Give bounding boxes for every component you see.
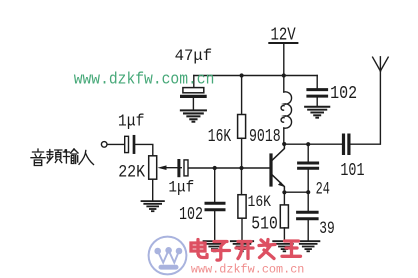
wire input circle to C3 xyxy=(107,143,125,145)
svg-text:www.dzkfw.com.cn: www.dzkfw.com.cn xyxy=(191,262,305,276)
watermark red text 电子开发王 xyxy=(191,240,301,261)
label 39 xyxy=(319,219,335,239)
label 16K (lower) xyxy=(248,193,272,211)
capacitor C2 102 top lead xyxy=(316,76,318,89)
inductor L1 top lead xyxy=(283,76,285,93)
potentiometer wiper arrow xyxy=(158,165,182,170)
ground under C8 xyxy=(297,241,319,251)
char 频 xyxy=(47,150,62,164)
capacitor C6 24 plates xyxy=(299,163,318,168)
label 24 xyxy=(316,181,330,200)
node rail/16K xyxy=(240,73,244,77)
capacitor C1 47μf lower lead xyxy=(192,98,194,109)
capacitor C3 1μf plates xyxy=(125,136,134,152)
node base/102 xyxy=(213,166,217,170)
potentiometer lower lead xyxy=(152,179,154,200)
resistor R4 510 top lead xyxy=(283,192,285,205)
potentiometer RP 22K body xyxy=(149,156,157,179)
svg-text:1μf: 1μf xyxy=(118,111,145,130)
watermark green url www.dzkfw.com.cn xyxy=(74,71,215,90)
label 102 (lower) xyxy=(179,205,203,225)
watermark logo circle W xyxy=(149,237,187,275)
wire C7 to antenna xyxy=(351,71,381,144)
capacitor C1 47μf lead xyxy=(193,76,195,88)
node rail/12V/coil xyxy=(282,73,286,77)
ground under R3 xyxy=(231,241,253,251)
input terminal circle xyxy=(101,142,107,148)
svg-text:24: 24 xyxy=(316,181,330,200)
transistor Q1 emitter line xyxy=(273,175,285,192)
resistor R2 16K body xyxy=(238,115,246,139)
resistor R2 16K upper lead xyxy=(241,76,243,115)
resistor R3 16K lower body xyxy=(238,195,246,219)
char 输 xyxy=(63,149,78,164)
capacitor C4 1μf plates xyxy=(179,160,188,176)
wire C3 to bend xyxy=(135,144,153,155)
svg-text:39: 39 xyxy=(319,219,335,239)
wire collector to C7 101 xyxy=(284,143,342,145)
char 子 (red) xyxy=(213,242,230,261)
capacitor C2 102 plates xyxy=(308,90,327,97)
antenna xyxy=(373,57,389,71)
ground under R4 xyxy=(273,241,295,251)
ground under C1 xyxy=(181,110,206,121)
char 王 (red) xyxy=(282,241,301,256)
capacitor C8 39 plates xyxy=(298,212,318,219)
svg-text:22K: 22K xyxy=(118,163,145,183)
resistor R3 upper lead xyxy=(241,168,243,195)
label 22K xyxy=(118,163,145,183)
node base/16K xyxy=(239,166,243,170)
watermark red url www.dzkfw.com.cn xyxy=(191,262,305,276)
inductor L1 coil xyxy=(281,92,292,128)
transistor Q1 base bar xyxy=(269,155,272,185)
power supply bar VCC xyxy=(269,42,297,44)
label 101 xyxy=(340,160,364,181)
node collector xyxy=(282,142,286,146)
node collector/24 xyxy=(306,142,310,146)
svg-text:102: 102 xyxy=(179,205,203,225)
svg-text:101: 101 xyxy=(340,160,364,181)
capacitor C5 lower lead xyxy=(214,211,216,240)
transistor Q1 collector line xyxy=(273,144,285,160)
resistor R3 lower lead xyxy=(241,218,243,240)
capacitor C1 47μf plates xyxy=(182,88,206,97)
svg-text:1μf: 1μf xyxy=(168,179,194,197)
resistor R4 510 body xyxy=(280,205,288,228)
label 1μf (C4) xyxy=(168,179,194,197)
resistor R2 16K lower lead xyxy=(241,138,243,168)
label 9018 xyxy=(249,127,281,147)
char 开 (red) xyxy=(236,242,253,259)
inductor L1 bottom lead xyxy=(283,128,285,144)
capacitor C8 lower lead xyxy=(307,220,309,240)
label 510 xyxy=(251,214,277,234)
svg-text:9018: 9018 xyxy=(249,127,281,147)
char 音 xyxy=(31,149,45,166)
char 发 (red) xyxy=(259,240,275,259)
svg-text:www.dzkfw.com.cn: www.dzkfw.com.cn xyxy=(74,71,215,90)
ground under C2 xyxy=(305,107,329,118)
capacitor C8 39 top lead xyxy=(307,192,309,211)
capacitor C5 102 top lead xyxy=(214,168,216,202)
label 12V xyxy=(271,25,296,46)
svg-text:510: 510 xyxy=(251,214,277,234)
label 16K (upper) xyxy=(208,127,231,147)
capacitor C5 102 plates xyxy=(206,203,224,210)
capacitor C7 101 plates xyxy=(344,135,349,153)
wire C4 to base xyxy=(189,167,270,169)
svg-text:16K: 16K xyxy=(248,193,272,211)
label 音频输入 (audio input) xyxy=(31,149,94,166)
wire top rail xyxy=(194,75,317,77)
char 入 xyxy=(79,151,94,165)
node emitter xyxy=(282,190,286,194)
label 102 (top) xyxy=(330,84,357,104)
svg-text:47μf: 47μf xyxy=(175,47,213,65)
wire 12V to rail xyxy=(283,43,285,76)
capacitor C6 24 top lead xyxy=(307,144,309,162)
capacitor C2 102 lower lead xyxy=(316,98,318,106)
ground under potentiometer xyxy=(142,201,164,211)
node 24/39 xyxy=(306,190,310,194)
wire emitter to 24/39 xyxy=(284,191,308,193)
capacitor C6 lower lead xyxy=(307,170,309,192)
svg-text:102: 102 xyxy=(330,84,357,104)
label 47μf xyxy=(175,47,213,65)
ground under C5 xyxy=(204,241,226,251)
resistor R4 lower lead xyxy=(283,228,285,240)
char 电 (red) xyxy=(191,240,207,258)
svg-text:16K: 16K xyxy=(208,127,231,147)
label 1μf (input cap) xyxy=(118,111,145,130)
